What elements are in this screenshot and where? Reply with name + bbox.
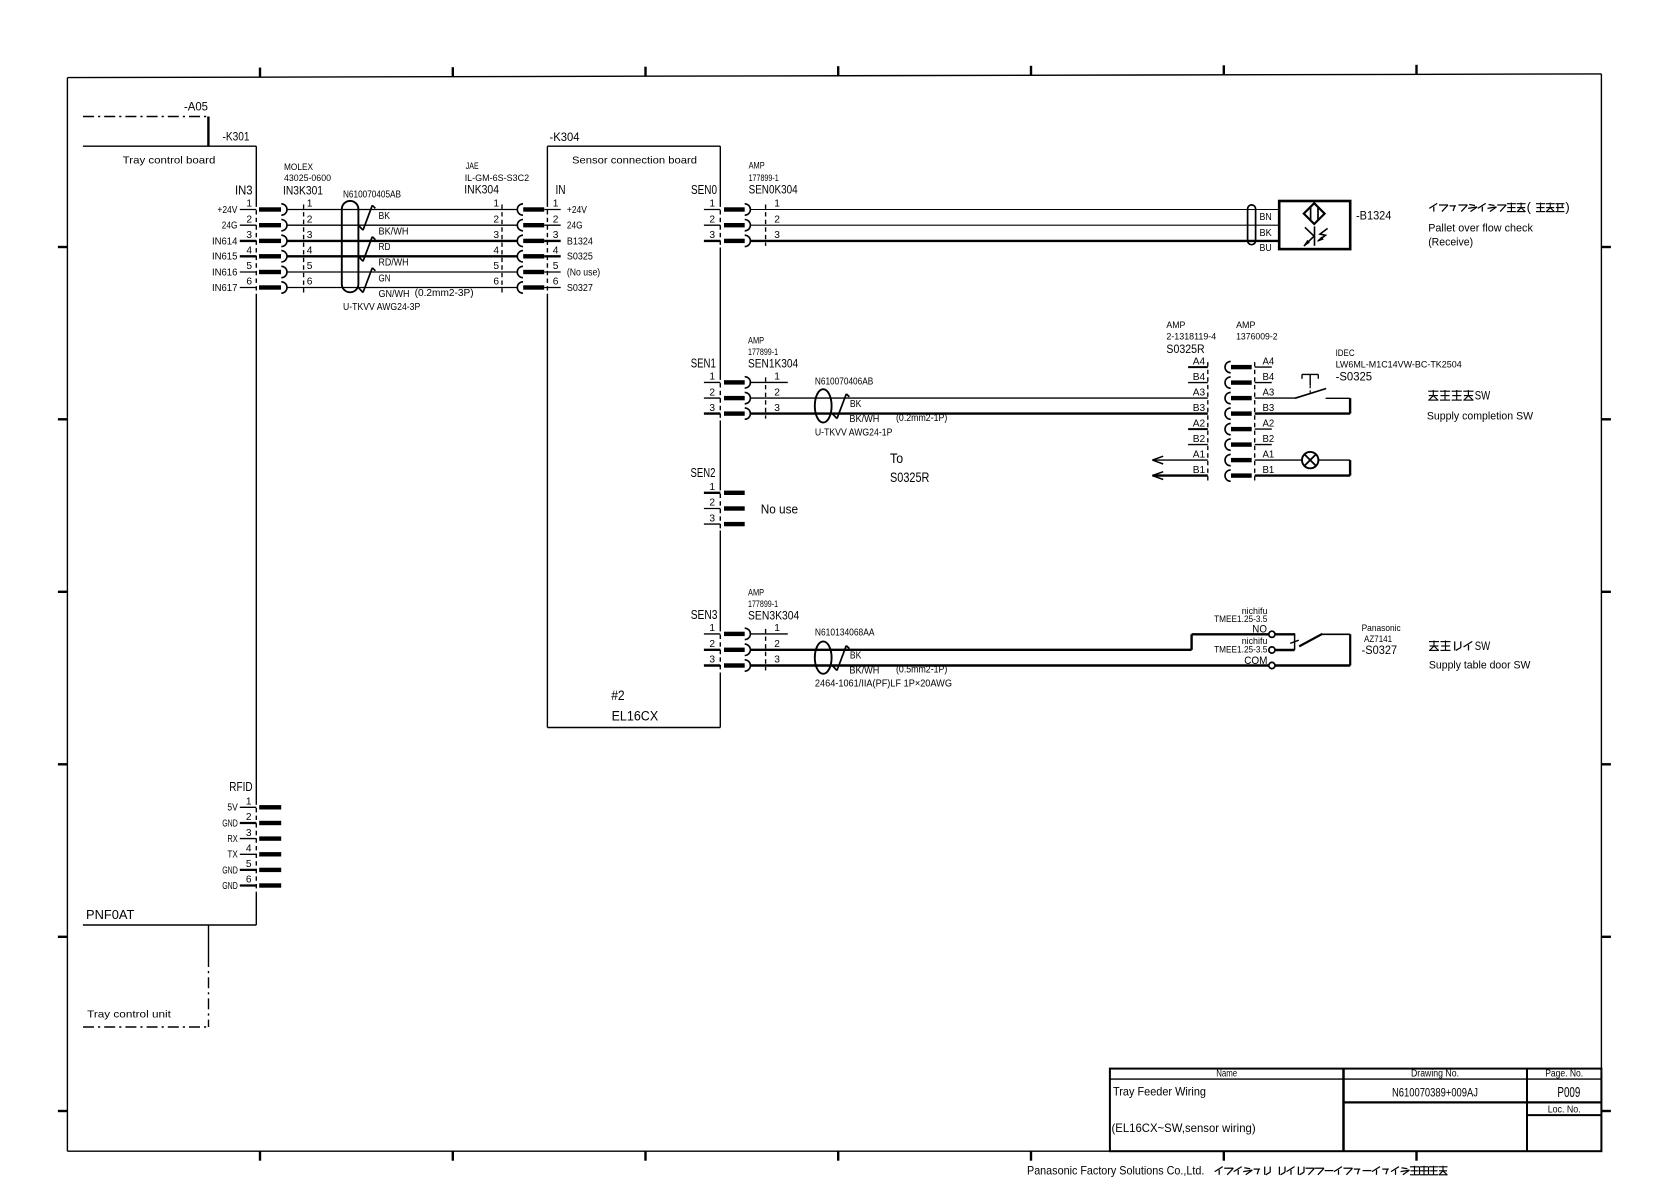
svg-text:(0.5mm2-1P): (0.5mm2-1P) [896,665,947,676]
svg-text:A2: A2 [1193,418,1206,429]
svg-text:B2: B2 [1193,434,1206,445]
svg-text:3: 3 [246,230,252,241]
svg-text:BK/WH: BK/WH [379,227,409,238]
svg-text:1: 1 [709,372,715,383]
svg-text:3: 3 [493,230,499,241]
svg-text:+24V: +24V [217,205,237,216]
svg-text:A1: A1 [1193,449,1206,460]
svg-text:6: 6 [246,875,252,886]
svg-text:BK: BK [850,399,862,410]
svg-text:Pallet over flow check: Pallet over flow check [1428,223,1533,235]
svg-text:5: 5 [307,261,313,272]
svg-text:B2: B2 [1263,434,1275,445]
svg-text:S0325R: S0325R [1166,342,1204,356]
svg-text:Panasonic: Panasonic [1362,623,1401,634]
svg-text:BK/WH: BK/WH [849,665,879,676]
svg-text:AMP: AMP [749,161,765,172]
svg-text:Tray control unit: Tray control unit [87,1010,171,1021]
svg-text:B4: B4 [1193,372,1206,383]
svg-text:IN3K301: IN3K301 [283,183,323,197]
svg-text:-A05: -A05 [184,100,208,114]
svg-text:Drawing No.: Drawing No. [1411,1069,1459,1080]
svg-text:2: 2 [246,214,252,225]
svg-text:-K304: -K304 [550,130,580,144]
svg-text:1: 1 [246,797,252,808]
svg-text:(No use): (No use) [567,267,600,278]
svg-text:5: 5 [246,859,252,870]
svg-text:IN614: IN614 [212,236,238,247]
svg-text:SEN1: SEN1 [691,356,716,371]
svg-text:3: 3 [709,403,715,414]
svg-text:COM: COM [1244,655,1267,667]
svg-text:3: 3 [774,403,780,414]
svg-text:(: ( [1527,199,1532,214]
svg-text:2: 2 [553,214,559,225]
svg-text:Supply completion SW: Supply completion SW [1427,411,1534,423]
svg-text:4: 4 [246,246,252,257]
svg-text:-S0327: -S0327 [1362,643,1398,657]
svg-text:2: 2 [709,387,715,398]
svg-text:(0.2mm2-1P): (0.2mm2-1P) [896,413,947,424]
svg-text:AMP: AMP [1166,320,1185,331]
svg-text:4: 4 [307,246,313,257]
svg-text:Tray control board: Tray control board [123,156,216,167]
svg-text:A4: A4 [1193,356,1206,367]
svg-text:1: 1 [774,623,780,634]
svg-text:2: 2 [709,639,715,650]
svg-text:GN/WH: GN/WH [379,289,410,300]
svg-text:BK: BK [850,651,862,662]
svg-text:2: 2 [493,214,499,225]
svg-text:6: 6 [307,277,313,288]
svg-text:N610070406AB: N610070406AB [815,377,874,388]
svg-text:BK: BK [1260,228,1272,239]
svg-text:RFID: RFID [229,779,252,794]
svg-text:Page. No.: Page. No. [1545,1069,1583,1080]
svg-text:JAE: JAE [466,161,479,172]
svg-text:2: 2 [774,639,780,650]
svg-text:P009: P009 [1557,1084,1580,1101]
svg-text:3: 3 [709,513,715,524]
svg-text:Supply table door SW: Supply table door SW [1429,660,1531,672]
svg-text:Sensor connection board: Sensor connection board [572,156,697,167]
svg-text:3: 3 [553,230,559,241]
svg-text:24G: 24G [222,221,238,232]
svg-text:A4: A4 [1263,356,1275,367]
svg-text:(Receive): (Receive) [1428,236,1473,248]
svg-text:5V: 5V [227,803,238,814]
svg-text:1: 1 [307,199,313,210]
svg-text:SW: SW [1475,639,1491,653]
svg-text:3: 3 [709,230,715,241]
svg-text:5: 5 [246,261,252,272]
svg-text:4: 4 [493,246,499,257]
svg-text:B1: B1 [1263,465,1275,476]
svg-text:24G: 24G [567,221,583,232]
svg-text:2: 2 [709,498,715,509]
svg-text:6: 6 [493,277,499,288]
svg-text:3: 3 [709,655,715,666]
svg-text:GND: GND [222,881,238,892]
svg-text:1: 1 [709,482,715,493]
svg-text:B1324: B1324 [567,236,593,247]
svg-text:(EL16CX~SW,sensor wiring): (EL16CX~SW,sensor wiring) [1112,1122,1256,1135]
svg-text:SEN1K304: SEN1K304 [748,356,798,370]
svg-text:MOLEX: MOLEX [284,162,314,173]
svg-text:(0.2mm2-3P): (0.2mm2-3P) [415,288,474,299]
svg-text:5: 5 [493,261,499,272]
svg-text:U-TKVV AWG24-1P: U-TKVV AWG24-1P [815,427,893,438]
svg-text:+24V: +24V [567,205,587,216]
svg-text:1376009-2: 1376009-2 [1236,332,1278,343]
svg-text:IN: IN [556,182,566,197]
svg-text:BU: BU [1260,243,1272,254]
svg-text:IN617: IN617 [212,283,238,294]
svg-text:BK/WH: BK/WH [849,414,879,425]
svg-text:RD/WH: RD/WH [379,258,409,269]
svg-text:1: 1 [709,623,715,634]
svg-text:1: 1 [774,372,780,383]
svg-text:BK: BK [379,211,391,222]
svg-text:AMP: AMP [748,587,764,598]
svg-text:6: 6 [553,277,559,288]
svg-text:SEN3K304: SEN3K304 [748,608,799,622]
svg-text:PNF0AT: PNF0AT [86,907,134,922]
svg-text:SW: SW [1475,389,1491,403]
svg-text:-B1324: -B1324 [1356,208,1392,222]
svg-text:3: 3 [246,828,252,839]
svg-text:IDEC: IDEC [1336,348,1355,359]
svg-text:-K301: -K301 [223,130,250,144]
svg-text:A2: A2 [1263,418,1275,429]
svg-text:S0327: S0327 [567,283,593,294]
svg-text:3: 3 [307,230,313,241]
svg-text:IN3: IN3 [235,183,253,198]
svg-text:2464-1061/IIA(PF)LF 1P×20AWG: 2464-1061/IIA(PF)LF 1P×20AWG [815,679,952,690]
svg-text:SEN0K304: SEN0K304 [749,183,798,197]
svg-text:IN616: IN616 [212,267,238,278]
svg-text:2: 2 [307,214,313,225]
svg-text:N610070389+009AJ: N610070389+009AJ [1392,1086,1478,1099]
svg-text:Loc. No.: Loc. No. [1548,1105,1581,1116]
svg-text:AMP: AMP [748,336,764,347]
svg-text:B1: B1 [1193,465,1206,476]
svg-text:SEN0: SEN0 [691,182,717,197]
svg-text:3: 3 [774,655,780,666]
svg-text:GND: GND [222,818,238,829]
svg-text:Name: Name [1216,1069,1237,1080]
svg-text:Tray Feeder Wiring: Tray Feeder Wiring [1113,1086,1206,1099]
svg-text:1: 1 [493,199,499,210]
svg-text:To: To [890,450,903,466]
svg-text:INK304: INK304 [464,182,499,196]
svg-text:B3: B3 [1263,403,1275,414]
svg-text:2: 2 [774,387,780,398]
svg-text:A1: A1 [1263,449,1275,460]
svg-text:IN615: IN615 [212,252,238,263]
svg-text:NO: NO [1252,623,1267,635]
svg-text:2: 2 [774,214,780,225]
svg-text:S0325: S0325 [567,252,593,263]
svg-text:B4: B4 [1263,372,1275,383]
svg-text:N610070405AB: N610070405AB [343,190,401,201]
svg-text:5: 5 [553,261,559,272]
svg-text:RX: RX [227,834,238,845]
svg-text:EL16CX: EL16CX [612,709,659,724]
svg-text:B3: B3 [1193,403,1206,414]
svg-text:A3: A3 [1263,387,1275,398]
svg-text:-S0325: -S0325 [1336,370,1373,384]
svg-text:S0325R: S0325R [890,469,929,485]
svg-text:1: 1 [709,199,715,210]
svg-text:RD: RD [379,242,391,253]
svg-text:N610134068AA: N610134068AA [815,628,875,639]
svg-text:1: 1 [246,199,252,210]
svg-text:GND: GND [222,865,238,876]
svg-text:1: 1 [774,199,780,210]
svg-text:): ) [1565,199,1569,214]
svg-text:BN: BN [1260,212,1272,223]
svg-text:1: 1 [553,199,559,210]
svg-text:U-TKVV AWG24-3P: U-TKVV AWG24-3P [343,302,420,313]
svg-text:No use: No use [761,502,798,517]
svg-text:Panasonic Factory Solutions Co: Panasonic Factory Solutions Co.,Ltd. [1027,1164,1204,1177]
svg-text:SEN3: SEN3 [691,607,718,622]
svg-text:TX: TX [227,850,238,861]
svg-text:6: 6 [246,277,252,288]
svg-text:2: 2 [246,812,252,823]
svg-text:AMP: AMP [1236,320,1255,331]
svg-text:TMEE1.25-3.5: TMEE1.25-3.5 [1214,645,1267,656]
svg-text:GN: GN [379,273,391,284]
svg-text:#2: #2 [611,688,625,703]
svg-text:SEN2: SEN2 [691,465,716,480]
svg-text:3: 3 [774,230,780,241]
svg-text:A3: A3 [1193,387,1206,398]
svg-text:2: 2 [709,214,715,225]
svg-text:4: 4 [553,246,559,257]
svg-text:4: 4 [246,844,252,855]
